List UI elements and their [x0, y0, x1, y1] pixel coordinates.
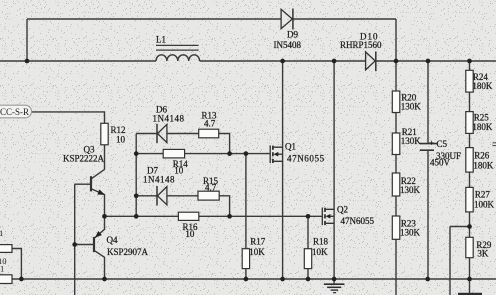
- svg-text:4.7: 4.7: [205, 183, 217, 193]
- svg-text:130K: 130K: [400, 185, 421, 195]
- svg-text:R25: R25: [474, 113, 490, 123]
- svg-text:180K: 180K: [472, 122, 493, 132]
- svg-text:10: 10: [116, 135, 126, 145]
- svg-text:4.7: 4.7: [204, 119, 216, 129]
- svg-text:KSP2222A: KSP2222A: [63, 154, 105, 164]
- svg-text:Q2: Q2: [337, 205, 348, 215]
- svg-text:IN5408: IN5408: [274, 40, 302, 50]
- svg-text:130K: 130K: [401, 136, 422, 146]
- svg-text:130K: 130K: [400, 228, 421, 238]
- svg-text:R27: R27: [475, 190, 491, 200]
- svg-text:47N6055: 47N6055: [287, 154, 325, 164]
- svg-text:C5: C5: [437, 139, 448, 149]
- svg-text:100K: 100K: [474, 200, 495, 210]
- svg-text:+: +: [429, 138, 434, 148]
- svg-text:R26: R26: [474, 151, 490, 161]
- svg-text:R17: R17: [250, 236, 266, 246]
- svg-text:10: 10: [185, 229, 195, 239]
- svg-text:R12: R12: [111, 125, 126, 135]
- svg-text:L1: L1: [156, 35, 166, 45]
- svg-text:47N6055: 47N6055: [341, 216, 375, 226]
- svg-text:180K: 180K: [473, 161, 494, 171]
- svg-text:1N4148: 1N4148: [143, 175, 175, 185]
- svg-text:1: 1: [0, 264, 4, 274]
- svg-text:3K: 3K: [477, 249, 489, 259]
- svg-text:KSP2907A: KSP2907A: [107, 247, 149, 257]
- svg-text:Q4: Q4: [107, 235, 118, 245]
- svg-text:Q1: Q1: [285, 142, 296, 152]
- svg-text:D9: D9: [287, 30, 298, 40]
- svg-text:10K: 10K: [312, 247, 328, 257]
- svg-text:130K: 130K: [401, 102, 422, 112]
- svg-text:180K: 180K: [472, 81, 493, 91]
- svg-text:10: 10: [174, 166, 184, 176]
- svg-text:450V: 450V: [430, 158, 451, 168]
- svg-text:1: 1: [0, 228, 3, 238]
- svg-text:10K: 10K: [249, 247, 265, 257]
- svg-text:RHRP1560: RHRP1560: [340, 40, 382, 50]
- svg-text:CC-S-R: CC-S-R: [0, 107, 29, 117]
- svg-text:1N4148: 1N4148: [153, 114, 185, 124]
- svg-text:R18: R18: [313, 237, 329, 247]
